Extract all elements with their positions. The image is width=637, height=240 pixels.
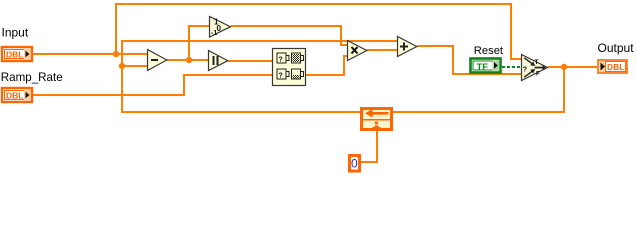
wire: Add output vertical down <box>452 45 454 75</box>
wire: Max-Min min output into Multiply y-input <box>343 55 348 57</box>
node A junction dot on Input wire <box>113 51 119 57</box>
svg-text:T: T <box>535 59 539 66</box>
add function <box>398 37 417 57</box>
wire: top rail to Select true-input <box>115 3 512 5</box>
control terminal Input (DBL) <box>2 47 32 61</box>
wire: 0 constant to feedback initialiser vertical <box>376 131 378 163</box>
subtract function <box>148 50 167 71</box>
wire: feedback vertical at left <box>121 40 123 113</box>
wire: bottom feedback rail <box>121 111 565 113</box>
control terminal Ramp_Rate (DBL) <box>2 88 32 102</box>
wire: Input to Subtract x-input <box>33 53 148 55</box>
wire: feedback branch to Subtract y-input <box>121 65 148 67</box>
control terminal Reset (TF boolean) <box>471 59 501 73</box>
beaker bottom-right low fill (min) <box>292 69 304 79</box>
wire: Reset boolean dotted wire to Select s input <box>502 66 520 68</box>
sign function <box>210 17 231 38</box>
svg-text:Reset: Reset <box>474 45 504 57</box>
beaker bottom-left with ? <box>277 69 289 79</box>
wire: Select output to Output terminal <box>548 66 597 68</box>
wire: 0 constant to feedback initialiser horizontal <box>360 161 378 163</box>
svg-text:0: 0 <box>351 157 358 171</box>
max-min function <box>273 49 306 86</box>
svg-text:DBL: DBL <box>6 91 23 101</box>
wire: Multiply output to Add y-input <box>367 49 397 51</box>
wire: Add output into Select F input <box>452 73 521 75</box>
wire: Absolute Value output to Max-Min x-input <box>228 60 273 62</box>
wire: Ramp_Rate to Max-Min y-input <box>183 74 273 76</box>
svg-text:Output: Output <box>598 41 635 55</box>
absolute value function <box>209 51 228 71</box>
svg-text:DBL: DBL <box>607 62 624 72</box>
initialiser glyph <box>375 122 378 125</box>
feedback node <box>362 109 392 130</box>
wire: vertical down from Select output junction <box>563 66 565 113</box>
wire: feedback rail to Add x-input <box>121 40 397 42</box>
wire: Sign output horizontal <box>231 25 342 27</box>
svg-text:?: ? <box>279 57 283 64</box>
svg-text:Ramp_Rate: Ramp_Rate <box>1 71 63 84</box>
svg-text:0: 0 <box>217 24 222 33</box>
node junction dot on Subtract output wire <box>186 57 192 63</box>
wire: Sign output vertical down <box>340 25 342 46</box>
svg-text:-1: -1 <box>211 30 217 37</box>
svg-text:?: ? <box>523 65 528 74</box>
wire: Max-Min min output horizontal <box>306 74 345 76</box>
wire: horizontal into Sign input <box>188 25 210 27</box>
svg-text:TF: TF <box>477 62 489 73</box>
wire: Max-Min min output vertical up <box>343 55 345 76</box>
svg-text:F: F <box>536 71 540 78</box>
beaker top-right filled (max) <box>292 53 304 63</box>
beaker top-left with ? <box>277 53 289 63</box>
indicator terminal Output (DBL) <box>598 60 627 73</box>
wire: Subtract output to Absolute Value input <box>167 59 209 61</box>
wire: vertical from Input junction up to top rail <box>115 3 117 55</box>
select function <box>522 55 548 81</box>
numeric constant 0 <box>350 156 360 172</box>
node B junction dot on feedback vertical <box>119 63 125 69</box>
wire: Ramp_Rate vertical up <box>183 74 185 96</box>
svg-text:?: ? <box>279 73 283 80</box>
wire: Ramp_Rate horizontal <box>33 94 185 96</box>
svg-text:DBL: DBL <box>6 50 23 60</box>
svg-text:Input: Input <box>2 25 29 39</box>
wire: Sign output into Multiply x-input <box>340 44 348 46</box>
wire: into Select T input <box>510 58 522 60</box>
node junction dot on Select output wire <box>561 64 567 70</box>
wire: Add output horizontal <box>417 45 454 47</box>
wire: vertical branch up to Sign input <box>188 25 190 61</box>
multiply function <box>348 41 367 61</box>
wire: vertical down at right of top rail <box>510 3 512 60</box>
